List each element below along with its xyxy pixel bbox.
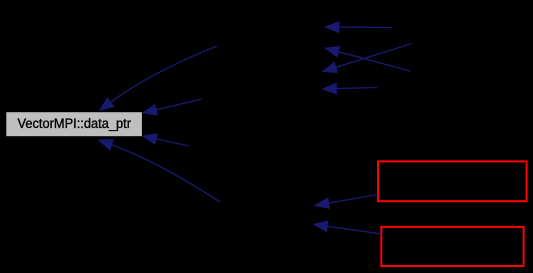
svg-text:VectorMPI::data_ptr: VectorMPI::data_ptr (18, 116, 132, 132)
